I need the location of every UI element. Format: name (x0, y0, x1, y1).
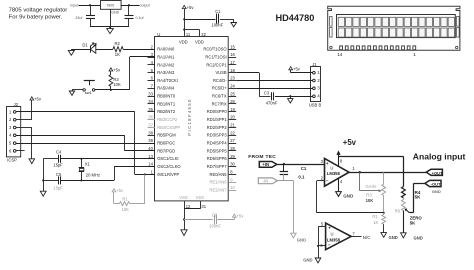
connector J1 pin 4 (313, 95, 316, 98)
svg-text:+OUT: +OUT (432, 170, 443, 175)
svg-text:5: 5 (151, 68, 154, 73)
svg-text:1K: 1K (373, 220, 378, 225)
ground symbol at J1 pin4 (288, 99, 293, 103)
svg-text:RC5/D+: RC5/D+ (212, 86, 227, 91)
wire pin3 RA1 net (130, 56, 155, 58)
pin 17 RC2/CCP1 (229, 64, 237, 66)
wire OSC2 net (114, 166, 155, 168)
svg-text:40: 40 (148, 146, 153, 151)
resistor R3 10K pullup (110, 86, 112, 90)
svg-text:C5: C5 (56, 172, 62, 177)
svg-text:+5v: +5v (187, 5, 195, 10)
svg-text:RA3/AN3: RA3/AN3 (157, 70, 175, 75)
svg-text:RC7/RX: RC7/RX (212, 101, 227, 106)
capacitor C1 0.1 (283, 164, 285, 171)
svg-text:1: 1 (151, 170, 154, 175)
svg-text:19: 19 (230, 107, 235, 112)
svg-text:C1: C1 (215, 9, 221, 14)
svg-text:3: 3 (317, 86, 320, 91)
wire +IN to op-amp pin3 (277, 164, 325, 166)
net tag +OUT (426, 169, 442, 175)
svg-text:2: 2 (151, 44, 154, 49)
capacitor C3 470nF (271, 92, 273, 100)
svg-text:10K: 10K (113, 82, 121, 87)
op-amp U LM358 A (325, 158, 350, 186)
svg-text:R1: R1 (122, 197, 128, 202)
svg-text:5: 5 (9, 141, 12, 146)
svg-text:29: 29 (230, 154, 235, 159)
svg-text:-IN: -IN (263, 179, 269, 184)
wire RC4/D- to J1 pin2 (236, 80, 312, 82)
pin 28 RD5/SPP5 (229, 150, 237, 152)
pin 8 V+ wire (338, 152, 340, 166)
LCD module outline (328, 6, 460, 50)
svg-text:U: U (331, 231, 334, 236)
pin 10 RE2/AN7 (229, 190, 237, 192)
pin 9 RE1/AN6 (229, 182, 237, 184)
svg-text:28: 28 (230, 146, 235, 151)
pin 40 RB7/PGD (148, 150, 156, 152)
ground symbol 7805 (110, 27, 112, 29)
svg-text:7: 7 (151, 83, 154, 88)
resistor R2 1K (113, 47, 123, 52)
pin 23 RC4/D- (229, 80, 237, 82)
pin 1 /MCLR/VPP (148, 174, 156, 176)
potentiometer R8 ZERO 5K (403, 198, 405, 200)
+5v supply at C2 (232, 214, 236, 217)
svg-text:VSS: VSS (196, 195, 204, 200)
ground symbol at C1 (231, 23, 237, 27)
resistor R4 5K (402, 187, 406, 198)
node MCLR junction (144, 173, 146, 175)
svg-text:+: + (326, 161, 329, 166)
svg-text:0.1: 0.1 (298, 175, 305, 180)
svg-text:12: 12 (186, 204, 191, 209)
svg-text:4: 4 (317, 94, 320, 99)
svg-text:R3: R3 (366, 192, 372, 197)
svg-text:24: 24 (230, 83, 235, 88)
node output junction (128, 4, 130, 6)
svg-text:ICSP: ICSP (7, 157, 17, 162)
svg-text:−: − (326, 178, 329, 183)
pin 4 V- wire and ground (338, 178, 340, 191)
svg-text:14: 14 (337, 52, 343, 57)
svg-text:15pF: 15pF (53, 162, 63, 167)
svg-text:For 9v batery power.: For 9v batery power. (9, 15, 63, 21)
svg-text:-OUT: -OUT (431, 182, 441, 187)
wire -OUT to wiper (414, 183, 425, 185)
svg-text:RA0/AN0: RA0/AN0 (157, 47, 175, 52)
svg-text:N/C: N/C (363, 235, 371, 240)
svg-text:10K: 10K (122, 207, 130, 212)
svg-text:D1: D1 (82, 43, 88, 48)
svg-text:32: 32 (201, 32, 206, 37)
wire J2 pin1 to /MCLR (16, 111, 135, 113)
svg-text:RE2/AN7: RE2/AN7 (210, 187, 228, 192)
wire VUSB to C3 (236, 72, 259, 74)
connector J1 pin 3 (313, 87, 316, 90)
svg-text:RD3/SPP3: RD3/SPP3 (207, 133, 228, 138)
wire J2 pin6 stub (16, 150, 25, 152)
capacitor C5 15pF (58, 176, 60, 184)
svg-text:RD6/SPP6: RD6/SPP6 (207, 156, 228, 161)
svg-text:input: input (70, 4, 78, 8)
LCD mounting holes (330, 46, 332, 48)
svg-text:RC6/TX: RC6/TX (212, 94, 227, 99)
pin 30 RD7/SPP7 (229, 166, 237, 168)
pin 29 RD6/SPP6 (229, 158, 237, 160)
svg-text:+5v: +5v (343, 138, 357, 147)
ground symbol at -IN (291, 233, 297, 238)
op-amp U LM358 B (326, 223, 352, 250)
LCD pin header 14..1 (340, 46, 343, 50)
wire -IN to ground (277, 180, 293, 182)
svg-text:RD7/SPP7: RD7/SPP7 (207, 164, 228, 169)
svg-text:+5v: +5v (237, 214, 245, 219)
capacitor C2 100nF vss bypass (184, 219, 213, 221)
pin 24 RC5/D+ (229, 88, 237, 90)
svg-text:22: 22 (230, 130, 235, 135)
pin 5 RA3/AN3 (148, 72, 156, 74)
wire ground to LED (71, 49, 90, 51)
pin 13 OSC1/CLKI (148, 158, 156, 160)
svg-text:GND: GND (343, 194, 354, 199)
svg-text:RC2/CCP1: RC2/CCP1 (206, 62, 227, 67)
pin 36 RB3/CCP2 (148, 119, 156, 121)
pin 2 RA0/AN0 (148, 49, 156, 51)
svg-text:5K: 5K (410, 221, 416, 226)
wire RC5/D+ to J1 pin3 (236, 88, 312, 90)
svg-text:9: 9 (230, 177, 233, 182)
LED D1 (90, 45, 96, 53)
svg-text:8: 8 (230, 170, 233, 175)
pin 26 RC7/RX (229, 103, 237, 105)
svg-text:1: 1 (352, 166, 355, 171)
svg-text:C4: C4 (56, 150, 62, 155)
svg-text:100nF: 100nF (211, 23, 223, 28)
svg-text:R1: R1 (372, 214, 378, 219)
svg-text:VDD: VDD (195, 39, 204, 44)
svg-text:GND: GND (297, 238, 306, 243)
svg-text:4: 4 (9, 133, 12, 138)
ground symbol at VSS (181, 230, 187, 236)
svg-text:5K: 5K (415, 195, 422, 200)
wire gain wiper (359, 172, 361, 191)
crystal X1 20 MHz (81, 159, 83, 167)
svg-text:RC4/D-: RC4/D- (213, 78, 227, 83)
svg-text:+5v: +5v (113, 67, 121, 72)
pin 25 RC6/TX (229, 96, 237, 98)
wire R2 to pin 2 RA0 (123, 49, 155, 51)
svg-text:HD44780: HD44780 (276, 13, 315, 23)
svg-text:OSC1/CLKI: OSC1/CLKI (157, 156, 178, 161)
ground symbol at R1 (381, 233, 387, 238)
ground symbol at op-amp B (315, 258, 321, 263)
net tag -IN (258, 178, 277, 184)
svg-text:RB3/CCP2: RB3/CCP2 (157, 117, 178, 122)
svg-text:8: 8 (340, 159, 343, 164)
svg-text:VSS: VSS (179, 195, 187, 200)
pin 22 RD3/SPP3 (229, 135, 237, 137)
pin 14 OSC2/CLKO (148, 166, 156, 168)
svg-text:21: 21 (230, 123, 235, 128)
svg-text:6: 6 (151, 76, 154, 81)
pin 38 RB5/PGM (148, 135, 156, 137)
svg-text:11: 11 (186, 32, 191, 37)
svg-text:−: − (328, 242, 331, 247)
svg-text:38: 38 (148, 130, 153, 135)
ground symbol at sw1 (72, 90, 74, 91)
resistor R1 1K feedback (383, 213, 385, 215)
svg-text:25: 25 (230, 91, 235, 96)
svg-text:GND: GND (414, 235, 423, 240)
wire J2 pin5 to RB6/PGC (16, 143, 155, 145)
net tag -OUT (425, 180, 441, 186)
svg-text:1: 1 (317, 70, 320, 75)
svg-text:RB4/CSSPP: RB4/CSSPP (157, 125, 180, 130)
svg-text:26: 26 (230, 99, 235, 104)
wire OSC1 net (61, 158, 155, 160)
svg-text:10K: 10K (366, 198, 374, 203)
svg-text:470nF: 470nF (266, 101, 278, 106)
svg-text:37: 37 (148, 123, 153, 128)
svg-text:X1: X1 (85, 162, 91, 167)
wire J2 pin2 to +5v (16, 119, 32, 121)
svg-text:27: 27 (230, 138, 235, 143)
node input junction (89, 4, 91, 6)
svg-text:1: 1 (413, 52, 416, 57)
svg-text:7805: 7805 (106, 4, 114, 8)
svg-text:39: 39 (148, 138, 153, 143)
connector J1 pin 2 (313, 79, 316, 82)
capacitor 0.1uf output cap (128, 5, 130, 16)
svg-text:GND: GND (389, 235, 398, 240)
node R3 bottom junction (110, 89, 112, 91)
svg-text:RC1/T1OSI: RC1/T1OSI (205, 54, 226, 59)
LCD character cells (338, 17, 344, 26)
svg-text:31: 31 (201, 204, 206, 209)
svg-text:C1: C1 (301, 166, 307, 171)
svg-text:+: + (328, 226, 331, 231)
wire C3 to J1 pin4 (275, 96, 313, 98)
svg-text:RA1/AN1: RA1/AN1 (157, 54, 175, 59)
svg-text:C2: C2 (212, 213, 218, 218)
svg-text:+5v: +5v (116, 188, 124, 193)
pin 33 RB0/INT0 (148, 96, 156, 98)
pin 15 RC0/T1OSO (229, 49, 237, 51)
svg-text:R8: R8 (395, 209, 401, 214)
+5v supply at VDD (182, 5, 186, 8)
svg-text:U: U (330, 166, 333, 171)
svg-text:4: 4 (340, 179, 343, 184)
svg-text:23: 23 (230, 76, 235, 81)
svg-text:36: 36 (148, 115, 153, 120)
svg-text:17: 17 (230, 60, 235, 65)
svg-text:VUSB: VUSB (215, 70, 226, 75)
+5v supply at R1 (112, 189, 116, 192)
svg-text:GND: GND (432, 189, 441, 194)
wire switch to ground (72, 89, 83, 91)
svg-text:3: 3 (9, 125, 12, 130)
pin 37 RB4/CSSPP (148, 127, 156, 129)
connector J1 pin 1 (313, 71, 316, 74)
svg-text:2: 2 (321, 176, 324, 181)
pin 4 RA2/AN2 (148, 64, 156, 66)
svg-text:10: 10 (230, 185, 235, 190)
capacitor .33uf input cap (90, 5, 92, 16)
svg-text:sw1: sw1 (85, 90, 93, 95)
pin 16 RC1/T1OSI (229, 57, 237, 59)
capacitor C4 15pF (58, 155, 60, 163)
pin 19 RD0/SPP0 (229, 111, 237, 113)
wire 7805 to output (121, 5, 140, 7)
svg-text:RA4/T0CKI: RA4/T0CKI (157, 78, 178, 83)
capacitor C1 100nF vdd bypass (184, 19, 215, 21)
wire op-amp B inputs to ground (318, 227, 320, 258)
pin 8 RE0/AN5 (229, 174, 237, 176)
svg-text:RD5/SPP5: RD5/SPP5 (207, 148, 228, 153)
svg-text:2: 2 (317, 78, 320, 83)
svg-text:RD1/SPP1: RD1/SPP1 (207, 117, 228, 122)
wire +5v rail to R4 (339, 156, 404, 158)
svg-text:/MCLR/VPP: /MCLR/VPP (157, 172, 179, 177)
svg-text:RC0/T1OSO: RC0/T1OSO (203, 47, 226, 52)
svg-text:output: output (140, 4, 150, 8)
wire VDD pins 11 32 (184, 9, 186, 37)
pin 34 RB1/INT1 (148, 103, 156, 105)
resistor R1 10K MCLR pullup (144, 174, 146, 203)
+5v supply at R3 (109, 68, 113, 71)
wire op-amp pin2 feedback (317, 180, 325, 182)
svg-text:LM358: LM358 (327, 238, 341, 243)
ground symbol at LED anode (71, 49, 73, 50)
svg-text:35: 35 (148, 107, 153, 112)
svg-text:15: 15 (230, 44, 235, 49)
svg-text:RB1/INT1: RB1/INT1 (157, 101, 176, 106)
svg-text:20: 20 (230, 115, 235, 120)
svg-text:15pF: 15pF (53, 186, 63, 191)
svg-text:20 MHz: 20 MHz (86, 173, 100, 178)
svg-text:RB0/INT0: RB0/INT0 (157, 94, 176, 99)
svg-text:RA5/AN4: RA5/AN4 (157, 86, 175, 91)
svg-text:5: 5 (321, 221, 324, 226)
svg-text:Analog input: Analog input (413, 152, 466, 162)
svg-text:34: 34 (148, 99, 153, 104)
pin 18 VUSB (229, 72, 237, 74)
wire J2 pin3 to ground (16, 127, 32, 129)
wire ground rail of 7805 section (90, 26, 129, 28)
wire +5v to J1 pin1 (290, 70, 292, 73)
svg-text:RA2/AN2: RA2/AN2 (157, 62, 175, 67)
svg-text:1: 1 (9, 109, 12, 114)
ground symbol crystal rail (40, 191, 46, 196)
wire crystal ground rail (43, 159, 45, 191)
regulator 7805 body (101, 1, 122, 10)
svg-text:RD4/SPP4: RD4/SPP4 (207, 141, 228, 146)
svg-text:+IN: +IN (262, 162, 269, 167)
svg-text:RB2/INT2: RB2/INT2 (157, 109, 176, 114)
svg-text:100nF: 100nF (209, 224, 221, 229)
svg-text:3: 3 (321, 159, 324, 164)
svg-text:2: 2 (9, 117, 12, 122)
svg-text:RE1/AN6: RE1/AN6 (210, 180, 228, 185)
svg-text:+5v: +5v (293, 66, 301, 71)
wire op-amp output (349, 172, 426, 174)
wire input to 7805 (79, 5, 101, 7)
potentiometer R3 GAIN 10K (383, 172, 385, 184)
svg-text:GND: GND (111, 11, 119, 15)
svg-text:PIC18F4550: PIC18F4550 (187, 98, 192, 135)
LCD side contacts (330, 17, 333, 27)
svg-text:1K: 1K (115, 52, 120, 57)
pin 35 RB2/INT2 (148, 111, 156, 113)
wire 7805 gnd pin (110, 10, 112, 27)
pushbutton sw1 (83, 89, 86, 92)
svg-text:RE0/AN5: RE0/AN5 (210, 172, 228, 177)
svg-text:RB7/PGD: RB7/PGD (157, 148, 175, 153)
svg-text:VDD: VDD (179, 39, 188, 44)
svg-text:RD0/SPP0: RD0/SPP0 (207, 109, 228, 114)
ground symbol at R8 (401, 233, 407, 238)
svg-text:FROM TEC: FROM TEC (248, 154, 276, 160)
svg-text:14: 14 (148, 162, 153, 167)
pin 6 RA4/T0CKI (148, 80, 156, 82)
svg-text:GAIN: GAIN (366, 184, 376, 189)
svg-text:13: 13 (148, 154, 153, 159)
svg-text:GND: GND (303, 258, 312, 263)
svg-text:RB6/PGC: RB6/PGC (157, 141, 175, 146)
svg-text:LM358: LM358 (327, 171, 341, 176)
net tag +IN (259, 162, 277, 168)
svg-text:33: 33 (148, 91, 153, 96)
svg-text:6: 6 (9, 148, 12, 153)
svg-text:18: 18 (230, 68, 235, 73)
LCD display window (337, 15, 456, 38)
pin 21 RD2/SPP2 (229, 127, 237, 129)
wire J2 pin4 to RB7/PGD (16, 135, 125, 137)
wire LED to R2 (96, 49, 113, 51)
pin 39 RB6/PGC (148, 143, 156, 145)
pin 20 RD1/SPP1 (229, 119, 237, 121)
svg-text:30: 30 (230, 162, 235, 167)
svg-text:7805 voltage regulator: 7805 voltage regulator (9, 8, 68, 14)
svg-text:.33uf: .33uf (74, 16, 82, 20)
svg-text:+5v: +5v (34, 97, 42, 102)
svg-text:USB B: USB B (309, 102, 322, 107)
svg-text:RD2/SPP2: RD2/SPP2 (207, 125, 228, 130)
svg-text:C3: C3 (264, 90, 270, 95)
svg-text:RB5/PGM: RB5/PGM (157, 133, 176, 138)
ground symbol at J2 pin3 (29, 159, 35, 164)
svg-text:0.1uf: 0.1uf (136, 16, 144, 20)
pin 3 RA1/AN1 (148, 57, 156, 59)
svg-text:16: 16 (230, 52, 235, 57)
svg-text:OSC2/CLKO: OSC2/CLKO (157, 164, 180, 169)
+5v supply at J2 pin2 (30, 97, 34, 100)
pin 7 RA5/AN4 (148, 88, 156, 90)
svg-text:R2: R2 (115, 41, 121, 46)
svg-text:7: 7 (352, 232, 355, 237)
+5v supply at J1 pin1 (289, 67, 293, 70)
pin 27 RD4/SPP4 (229, 143, 237, 145)
